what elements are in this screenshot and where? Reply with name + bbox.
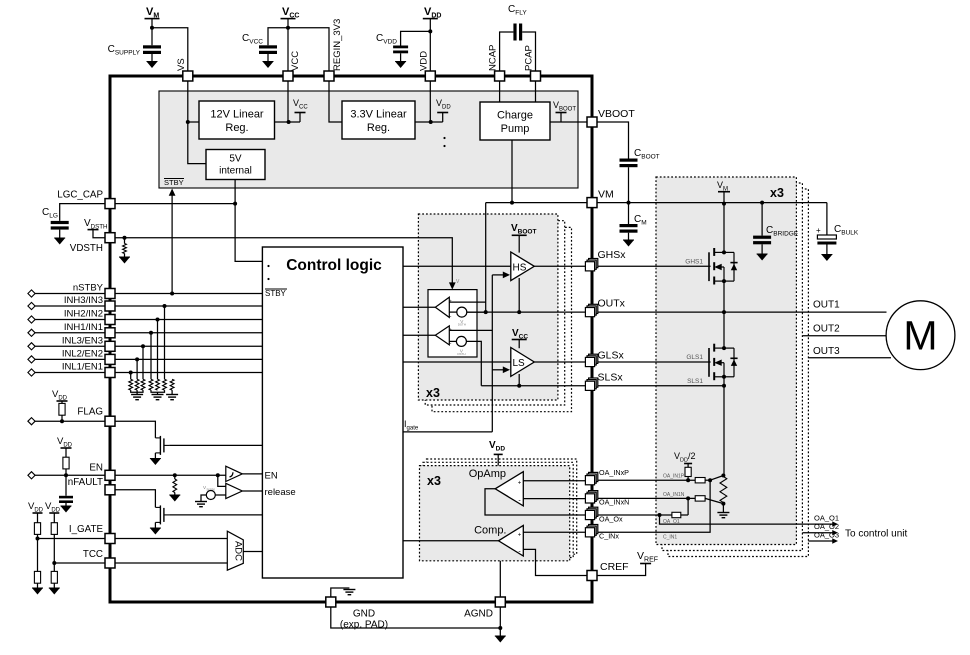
OpAmp triangle bbox=[495, 472, 523, 506]
wire HS output to GHSx pin bbox=[534, 265, 586, 267]
svg-text:VDSTH: VDSTH bbox=[70, 243, 103, 254]
wire VM internal rail bbox=[486, 202, 587, 204]
svg-text:OUTx: OUTx bbox=[598, 298, 626, 310]
ground CVDD bbox=[395, 62, 406, 69]
wire HS lower rail to OUTx bbox=[518, 278, 520, 312]
svg-text:x3: x3 bbox=[770, 186, 784, 200]
svg-text:DSTH: DSTH bbox=[458, 323, 466, 327]
gate driver x3 block (front, grey) bbox=[418, 214, 558, 400]
svg-text:VS: VS bbox=[176, 58, 187, 71]
pin OUTx (x3) bbox=[585, 304, 597, 316]
pin VCC bbox=[283, 71, 293, 81]
ground CM bbox=[623, 240, 634, 247]
svg-text:LS: LS bbox=[513, 358, 526, 369]
pin nFAULT bbox=[105, 485, 115, 495]
svg-text:OA_O3: OA_O3 bbox=[814, 530, 839, 539]
wire LS output to GLSx pin bbox=[534, 361, 586, 363]
junction sense resistor bottom bbox=[721, 502, 725, 506]
resistor feedback bbox=[672, 512, 681, 517]
wire VDD pin to 3.3V reg output bbox=[429, 81, 431, 122]
current sense x3 block (middle copy) bbox=[423, 462, 573, 557]
resistor VDSTH internal pulldown bbox=[124, 238, 126, 244]
wire PCAP pin to charge pump bbox=[535, 81, 537, 102]
wire circle2 to SLSx sense bbox=[466, 341, 481, 385]
pin INH3/IN3 bbox=[105, 301, 115, 311]
ground nFAULT MOSFET source bbox=[154, 522, 156, 528]
resistor pulldown of nSTBY bbox=[170, 379, 174, 390]
regulator block 5V internal bbox=[206, 150, 265, 180]
resistor kelvin - filter bbox=[695, 496, 705, 501]
pin OA_Ox (x3) bbox=[585, 507, 597, 519]
wire OUTx internal bbox=[467, 311, 586, 313]
wire FLAG external bbox=[35, 420, 105, 422]
wire OA_INxN external bbox=[597, 497, 695, 499]
svg-text:x3: x3 bbox=[427, 474, 441, 488]
svg-text:STBY: STBY bbox=[164, 178, 184, 187]
wire OA_Ox external bbox=[597, 514, 672, 516]
pin INL2/EN2 bbox=[105, 354, 115, 364]
wire INL2/EN2 external + label bbox=[35, 358, 105, 360]
motor M bbox=[886, 301, 955, 370]
capacitor CLG on LGC_CAP bbox=[60, 204, 105, 221]
svg-text:INL3/EN3: INL3/EN3 bbox=[62, 335, 103, 346]
wire nSTBY to STBY arrow bbox=[171, 193, 173, 294]
wire Igate vertical rail bbox=[491, 275, 493, 432]
svg-text:Charge: Charge bbox=[497, 110, 533, 122]
LS gate driver triangle bbox=[511, 348, 535, 377]
junction sense resistor top bbox=[721, 474, 725, 478]
svg-text:PCAP: PCAP bbox=[524, 45, 535, 71]
regulator block 3.3V Linear Reg. bbox=[342, 101, 415, 139]
wire INL3/EN3 input bbox=[115, 345, 262, 347]
wire INH1/IN1 external + label bbox=[35, 332, 105, 334]
svg-text:TCC: TCC bbox=[83, 549, 103, 560]
junction CBOOT / VM line bbox=[627, 201, 631, 205]
wire OA_INxP external bbox=[597, 479, 695, 481]
wire OUT2 external bbox=[802, 335, 889, 337]
wire OpAmp + input from OA_INxP bbox=[523, 480, 586, 482]
pin OA_INxP (x3) bbox=[585, 472, 597, 484]
ADC block bbox=[227, 531, 243, 570]
transistor GHS1 power MOSFET bbox=[709, 248, 734, 285]
Comp triangle bbox=[499, 525, 524, 556]
wire comparator1 - input to circle1 bbox=[449, 311, 457, 313]
wire comparator1 + input to drain-sense stub bbox=[449, 301, 485, 303]
current sense x3 block (front, grey) bbox=[420, 466, 570, 561]
wire VBOOT to CBOOT bbox=[597, 122, 629, 159]
wire TCC external bbox=[54, 562, 105, 564]
wire nFAULT gate from control logic bbox=[169, 514, 262, 516]
capacitor CBULK (electrolytic) bbox=[826, 203, 828, 235]
svg-text:Comp.: Comp. bbox=[474, 525, 506, 537]
control logic block bbox=[262, 247, 403, 578]
svg-text:internal: internal bbox=[219, 166, 252, 177]
pin nSTBY bbox=[105, 289, 115, 299]
wire SLSx internal bbox=[481, 385, 586, 387]
capacitor CVDD bbox=[401, 31, 431, 45]
pin CREF bbox=[587, 571, 597, 581]
pin INL1/EN1 bbox=[105, 368, 115, 378]
ground RSENSE bbox=[717, 513, 729, 518]
svg-text:VCC: VCC bbox=[290, 51, 301, 71]
wire GHS1 source to OUT1 bbox=[723, 281, 725, 312]
wire I_GATE external bbox=[38, 538, 106, 540]
svg-text:C_INx: C_INx bbox=[599, 532, 619, 541]
wire GLS1 source to SLS1 bbox=[723, 377, 725, 386]
wire charge pump to VM rail bbox=[511, 140, 513, 203]
wire GLS1 drain to OUT1 bbox=[723, 312, 725, 348]
capacitor CSUPPLY bbox=[151, 28, 153, 46]
svg-text:GLS1: GLS1 bbox=[686, 354, 703, 361]
VDS comparator 2 (low side) bbox=[435, 326, 449, 345]
wire INL1/EN1 input bbox=[115, 372, 262, 374]
wire OUT3 external bbox=[808, 357, 891, 359]
wire INH1/IN1 input bbox=[115, 332, 262, 334]
wire LS lower rail to SLSx bbox=[518, 374, 520, 386]
wire GHSx external to gate bbox=[597, 265, 711, 267]
resistor pulldown of INL3/EN3 bbox=[141, 379, 145, 390]
svg-text:nFAULT: nFAULT bbox=[68, 477, 103, 488]
svg-text:STBY: STBY bbox=[265, 289, 287, 298]
svg-text:+: + bbox=[518, 533, 522, 539]
pin GND bbox=[326, 597, 336, 607]
svg-text:AGND: AGND bbox=[464, 609, 493, 620]
wire comparator2 - input to circle2 bbox=[449, 340, 456, 342]
comparator EN threshold bbox=[226, 466, 243, 481]
wire EN to release comparator bbox=[218, 475, 226, 486]
capacitor CVCC bbox=[268, 28, 288, 46]
ground of input pulldowns group 1 bbox=[131, 390, 143, 392]
pin GHSx (x3) bbox=[585, 259, 597, 271]
HS gate driver triangle bbox=[511, 252, 535, 281]
junction VM sense / OUTx bbox=[484, 310, 488, 314]
VDS comparators sub-box bbox=[428, 290, 477, 357]
resistor EN pulldown bbox=[174, 475, 176, 479]
resistor pulldown of INL1/EN1 bbox=[129, 379, 133, 390]
svg-text:x3: x3 bbox=[426, 386, 440, 400]
current sense x3 block (back copy) bbox=[427, 459, 577, 554]
wire ADC output to control logic bbox=[243, 551, 262, 553]
charge pump block U-CP bbox=[480, 102, 550, 140]
wire GHS1 drain to VM bbox=[723, 204, 725, 253]
svg-text:INH3/IN3: INH3/IN3 bbox=[64, 295, 103, 306]
wire C_INx external bbox=[597, 480, 710, 532]
resistor pulldown of INH1/IN1 bbox=[149, 379, 153, 390]
wire FLAG internal bbox=[115, 421, 155, 438]
wire OpAmp - input from OA_INxN bbox=[523, 498, 586, 500]
capacitor CBOOT bbox=[620, 159, 638, 168]
svg-text:INH2/IN2: INH2/IN2 bbox=[64, 309, 103, 320]
pin I_GATE bbox=[105, 534, 115, 544]
wire feedback node bbox=[687, 498, 689, 515]
pin VM bbox=[587, 198, 597, 208]
pin AGND bbox=[495, 597, 505, 607]
svg-text:+: + bbox=[449, 327, 452, 332]
wire OA_O1 to control unit bbox=[660, 515, 834, 524]
wire VM supply to VS pin bbox=[152, 28, 188, 71]
comparator EN release bbox=[226, 483, 243, 498]
svg-text:LGC_CAP: LGC_CAP bbox=[57, 190, 103, 201]
svg-text:FLAG: FLAG bbox=[77, 407, 103, 418]
wire CFLY to NCAP bbox=[500, 32, 514, 71]
wire OA_O2 to control unit bbox=[802, 532, 833, 534]
svg-text:OA_INxP: OA_INxP bbox=[599, 468, 629, 477]
svg-text:OUT2: OUT2 bbox=[813, 324, 840, 335]
pin PCAP bbox=[531, 71, 541, 81]
wire 3.3V reg output bbox=[415, 121, 443, 123]
wire SLSx external (SLS1) bbox=[597, 385, 724, 387]
resistor pulldown of INL2/EN2 bbox=[135, 379, 139, 390]
ground CVCC bbox=[263, 62, 274, 69]
wire NCAP pin to charge pump bbox=[499, 81, 501, 102]
svg-text:ADC: ADC bbox=[233, 541, 244, 561]
ground VDSTH pulldown bbox=[119, 257, 130, 264]
wire LGC_CAP internal bbox=[115, 203, 235, 205]
svg-text:GLSx: GLSx bbox=[598, 350, 625, 362]
pin FLAG bbox=[105, 416, 115, 426]
wire INH2/IN2 input bbox=[115, 319, 262, 321]
wire GND to AGND external bbox=[331, 607, 501, 628]
svg-text:OA_Ox: OA_Ox bbox=[599, 515, 623, 524]
wire Comp output to control logic bbox=[403, 540, 499, 542]
svg-text:VM: VM bbox=[598, 189, 614, 201]
pin VS bbox=[183, 71, 193, 81]
junction CBRIDGE / VM rail bbox=[760, 201, 764, 205]
resistor kelvin + filter bbox=[695, 478, 705, 483]
pin INH1/IN1 bbox=[105, 328, 115, 338]
junction HS rail / OUTx bbox=[517, 310, 521, 314]
svg-text:12V Linear: 12V Linear bbox=[210, 109, 264, 121]
VDS comparator 1 (high side) bbox=[435, 297, 449, 317]
wire nSTBY external + label bbox=[35, 293, 105, 295]
svg-text:nSTBY: nSTBY bbox=[73, 283, 104, 294]
regulator block 12V Linear Reg. bbox=[199, 101, 275, 139]
pin INH2/IN2 bbox=[105, 315, 115, 325]
pin C_INx (x3) bbox=[585, 525, 597, 537]
svg-text:(exp. PAD): (exp. PAD) bbox=[340, 620, 388, 631]
svg-text:GHS1: GHS1 bbox=[685, 258, 703, 265]
wire REGIN_3V3 pin to 3.3V reg bbox=[329, 81, 342, 122]
svg-text:CREF: CREF bbox=[600, 561, 629, 573]
wire 12V reg output bbox=[275, 121, 301, 123]
wire nSTBY input bbox=[115, 293, 262, 295]
wire comparator2 output to control logic bbox=[403, 334, 435, 336]
svg-text:SLS1: SLS1 bbox=[687, 378, 703, 385]
wire INH3/IN3 external + label bbox=[35, 305, 105, 307]
ground AGND bbox=[499, 628, 501, 636]
ground CBRIDGE bbox=[757, 254, 768, 261]
wire INL1/EN1 external + label bbox=[35, 372, 105, 374]
ground FLAG MOSFET source bbox=[154, 453, 156, 459]
svg-text:Reg.: Reg. bbox=[225, 122, 248, 134]
wire SLS1 to sense resistor bbox=[723, 386, 725, 476]
resistor pulldown of INH3/IN3 bbox=[163, 379, 167, 390]
wire LS input from control logic bbox=[403, 361, 511, 363]
svg-text:VBOOT: VBOOT bbox=[598, 108, 635, 120]
wire Comp + input from C_INx bbox=[523, 531, 586, 533]
svg-text:OUT1: OUT1 bbox=[813, 300, 840, 311]
wire FLAG gate from control logic bbox=[169, 444, 262, 446]
svg-text:I_GATE: I_GATE bbox=[69, 524, 104, 535]
ground of input pulldowns group 2 bbox=[151, 390, 165, 392]
wire INH3/IN3 input bbox=[115, 305, 262, 307]
wire 5V internal output bbox=[235, 179, 262, 261]
ground of nSTBY pulldown bbox=[171, 390, 173, 394]
svg-text:To control unit: To control unit bbox=[845, 529, 907, 540]
wire Comp - input from CREF bbox=[523, 549, 587, 575]
svg-text:INL2/EN2: INL2/EN2 bbox=[62, 348, 103, 359]
wire circle1 to OUTx node bbox=[467, 311, 486, 313]
ellipsis inside control logic bbox=[267, 265, 269, 267]
wire kelvin - diagonal bbox=[705, 498, 723, 503]
wire comparator1 output to control logic bbox=[403, 306, 435, 308]
wire kelvin + diagonal bbox=[710, 476, 723, 481]
wire CFLY to PCAP bbox=[522, 32, 535, 71]
wire EN external bbox=[35, 474, 105, 476]
pin EN bbox=[105, 470, 115, 480]
svg-text:HS: HS bbox=[513, 262, 527, 273]
wire charge pump output to VBOOT bbox=[550, 121, 587, 123]
svg-text:Reg.: Reg. bbox=[367, 122, 390, 134]
svg-text:SLSx: SLSx bbox=[598, 372, 624, 384]
power management grey block bbox=[159, 91, 578, 188]
svg-text:DSTH: DSTH bbox=[457, 352, 465, 356]
svg-text:OpAmp: OpAmp bbox=[469, 468, 506, 480]
wire Igate arrow into LS bbox=[492, 369, 505, 371]
wire TCC to ADC bbox=[115, 562, 227, 564]
pin OA_INxN (x3) bbox=[585, 491, 597, 503]
wire GLSx external to gate bbox=[597, 361, 711, 363]
wire VCC pin to 12V reg output bbox=[287, 81, 289, 122]
power stage x3 block (front, grey) bbox=[656, 177, 796, 545]
svg-text:NCAP: NCAP bbox=[488, 45, 499, 71]
svg-text:OA_IN1N: OA_IN1N bbox=[663, 492, 685, 498]
svg-text:REGIN_3V3: REGIN_3V3 bbox=[332, 19, 343, 71]
svg-text:GHSx: GHSx bbox=[598, 249, 627, 261]
svg-text:EN: EN bbox=[89, 462, 103, 473]
transistor nFAULT open-drain MOSFET bbox=[155, 505, 169, 524]
gate driver x3 block (middle copy) bbox=[425, 221, 565, 405]
svg-text:5V: 5V bbox=[229, 154, 242, 165]
wire OA_O3 to control unit bbox=[808, 540, 833, 542]
svg-text:OUT3: OUT3 bbox=[813, 346, 840, 357]
wire AGND down bbox=[499, 607, 501, 628]
pin TCC bbox=[105, 558, 115, 568]
wire Igate arrow into HS bbox=[492, 274, 505, 276]
svg-text:Pump: Pump bbox=[501, 123, 530, 135]
pin VBOOT bbox=[587, 117, 597, 127]
body diode of GLS1 bbox=[731, 359, 737, 366]
transistor FLAG output MOSFET bbox=[155, 436, 169, 455]
wire opamp block to AGND bbox=[499, 561, 501, 602]
gate driver x3 block (back copy) bbox=[432, 227, 572, 411]
TCC divider bbox=[53, 513, 55, 523]
IC main boundary box bbox=[110, 76, 592, 602]
ground EN pulldown bbox=[169, 495, 180, 502]
transistor GLS1 power MOSFET bbox=[709, 344, 734, 381]
wire EN comparator output bbox=[242, 473, 262, 475]
Vdsth reference source circle 1 bbox=[457, 307, 467, 317]
pin VDSTH bbox=[105, 233, 115, 243]
svg-text:M: M bbox=[903, 313, 937, 359]
pin GLSx (x3) bbox=[585, 354, 597, 366]
ground symbol near GND pin bbox=[331, 588, 350, 597]
svg-text:+: + bbox=[816, 226, 821, 235]
wire OUT1 external bbox=[597, 311, 887, 313]
svg-text:release: release bbox=[265, 487, 296, 498]
resistor pulldown of INH2/IN2 bbox=[156, 379, 160, 390]
junction LS rail / SLSx bbox=[517, 384, 521, 388]
pin INL3/EN3 bbox=[105, 341, 115, 351]
power stage x3 block (middle copy) bbox=[662, 183, 802, 551]
wire INH2/IN2 external + label bbox=[35, 319, 105, 321]
svg-text:INH1/IN1: INH1/IN1 bbox=[64, 322, 103, 333]
wire VCC supply to REGIN_3V3 pin bbox=[288, 28, 329, 71]
ellipsis between regulators bbox=[443, 137, 445, 139]
wire I_GATE to ADC bbox=[115, 538, 227, 540]
wire OpAmp output loop to OA_Ox bbox=[485, 489, 586, 515]
svg-text:OA_INxN: OA_INxN bbox=[599, 498, 629, 507]
svg-text:EN: EN bbox=[265, 471, 278, 482]
ground CBULK bbox=[821, 255, 832, 262]
wire comparator2 + input to Igate rail bbox=[449, 329, 492, 331]
wire INL3/EN3 external + label bbox=[35, 345, 105, 347]
wire Igate from control logic bbox=[403, 431, 492, 433]
wire VS pin to 12V reg and 5V internal bbox=[188, 81, 206, 164]
svg-text:OA_IN1P: OA_IN1P bbox=[663, 474, 685, 480]
svg-text:VDD: VDD bbox=[418, 51, 429, 71]
svg-text:+: + bbox=[518, 480, 522, 486]
pin REGIN_3V3 bbox=[324, 71, 334, 81]
wire EN internal bbox=[115, 474, 226, 476]
body diode of GHS1 bbox=[731, 264, 737, 271]
svg-text:GND: GND bbox=[353, 609, 375, 620]
pin NCAP bbox=[495, 71, 505, 81]
svg-text:C_IN1: C_IN1 bbox=[663, 535, 677, 541]
junction 5V internal / LGC_CAP bbox=[233, 202, 237, 206]
pin LGC_CAP bbox=[105, 199, 115, 209]
wire VM external rail bbox=[597, 202, 827, 204]
wire VM sense vertical bbox=[485, 203, 487, 313]
pin VDD bbox=[425, 71, 435, 81]
capacitor CBRIDGE bbox=[761, 203, 763, 236]
Vdsth reference source circle 2 bbox=[456, 336, 466, 346]
wire HS input from control logic bbox=[403, 265, 511, 267]
pin SLSx (x3) bbox=[585, 378, 597, 390]
capacitor CM bbox=[628, 203, 630, 224]
svg-text:3.3V Linear: 3.3V Linear bbox=[350, 109, 407, 121]
wire VDSTH internal to Vmin arrow bbox=[115, 238, 452, 286]
wire release comparator output bbox=[242, 490, 262, 492]
wire INL2/EN2 input bbox=[115, 358, 262, 360]
ground CSUPPLY bbox=[147, 62, 158, 69]
power stage x3 block (back copy) bbox=[668, 189, 808, 557]
svg-text:INL1/EN1: INL1/EN1 bbox=[62, 362, 103, 373]
resistor VDD/2 bias bbox=[685, 467, 691, 476]
ground Vsense source bbox=[195, 502, 207, 507]
svg-text:Control logic: Control logic bbox=[286, 257, 382, 274]
wire nFAULT internal bbox=[115, 490, 155, 508]
